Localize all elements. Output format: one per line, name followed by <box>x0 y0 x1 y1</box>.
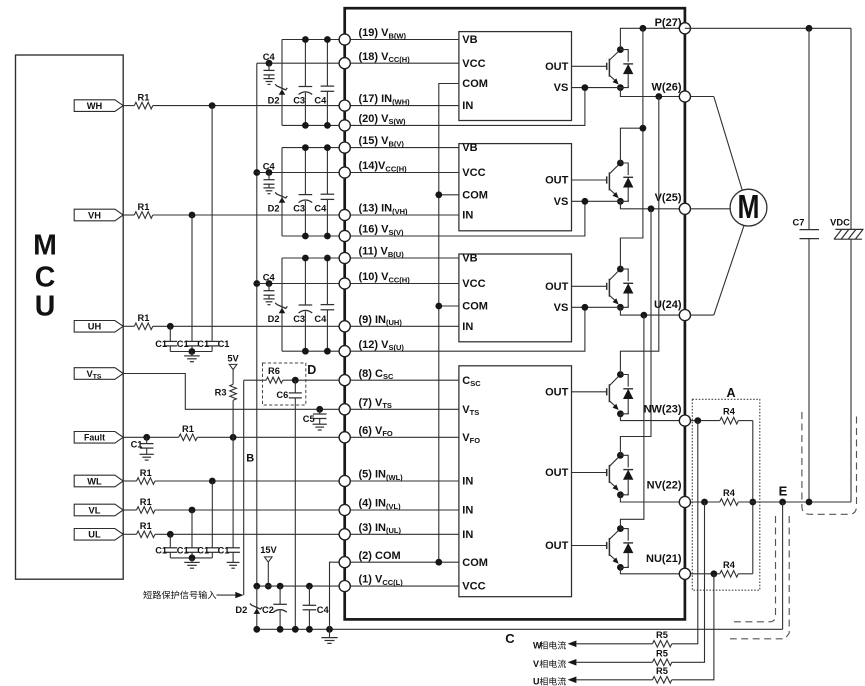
node WL junction <box>209 478 216 485</box>
svg-text:C1: C1 <box>177 339 189 349</box>
resistor R5 (V) <box>653 649 672 666</box>
wire UH flag to R1 <box>123 325 134 327</box>
svg-text:5V: 5V <box>227 354 239 364</box>
node ground rail <box>292 626 299 633</box>
wire R5 V to arrow <box>568 659 653 666</box>
wire R6 to C6 node <box>283 379 345 381</box>
svg-text:C3: C3 <box>293 314 305 324</box>
pin (8) circle <box>339 375 350 386</box>
node bootstrap rail <box>324 255 331 355</box>
svg-text:COM: COM <box>462 301 488 313</box>
pin NV(22) circle <box>679 496 690 507</box>
power 15V symbol <box>265 557 273 562</box>
capacitor C3 (bootstrap U) <box>299 258 313 351</box>
svg-text:VB: VB <box>462 142 477 154</box>
op-amp U4 low-side driver <box>459 366 572 597</box>
svg-text:C5: C5 <box>303 414 315 424</box>
wire W row <box>620 88 685 97</box>
wire CSC row to R6 network <box>244 379 267 381</box>
transistor Q6 IGBT NU-low with diode <box>572 525 634 571</box>
wire VCC(L) row <box>257 585 345 587</box>
pin (3) circle <box>339 529 350 540</box>
svg-text:OUT: OUT <box>545 175 569 187</box>
wire WL flag to R1 <box>123 480 136 482</box>
wire 5V to R3 <box>232 370 234 385</box>
wire NW sense down <box>672 421 698 644</box>
svg-text:C1: C1 <box>155 546 167 556</box>
pin NV(22) label <box>647 480 682 492</box>
capacitor C3 (bootstrap V) <box>299 148 313 236</box>
wire Q2 collector to P bus <box>620 128 643 163</box>
wire WH flag to R1 <box>123 105 134 107</box>
motor M <box>730 189 767 226</box>
pin (9) circle <box>339 321 350 332</box>
svg-text:R1: R1 <box>140 497 152 507</box>
node P bus junction <box>640 25 647 32</box>
svg-text:VL: VL <box>89 505 101 515</box>
box D dashed <box>263 363 306 405</box>
capacitor C4 (VCC W decoupling) <box>263 63 274 84</box>
node VCC rail to VCC(L) <box>253 583 260 590</box>
capacitor C4 (15V decoupling) <box>303 586 317 629</box>
pin (6) circle <box>339 432 350 443</box>
pin NW(23) circle <box>679 415 690 426</box>
pin (11) circle <box>339 252 350 263</box>
MCU port flag WH <box>74 100 123 112</box>
MCU port flag WL <box>74 475 123 487</box>
svg-text:R4: R4 <box>723 560 736 570</box>
node lower C1 rail <box>189 555 196 562</box>
dashed shield E inner <box>730 516 776 622</box>
node bootstrap rail <box>302 144 309 239</box>
wire NV row <box>620 495 685 502</box>
pin (17) circle <box>339 100 350 111</box>
wire WL R1 to pin (5) <box>155 480 345 482</box>
node bootstrap rail <box>302 36 309 129</box>
node C7 bottom junction <box>806 499 813 506</box>
label C4 (VCC U) <box>263 273 276 283</box>
svg-text:WL: WL <box>87 476 102 486</box>
svg-text:C4: C4 <box>263 162 276 172</box>
resistor R4 (U) <box>720 560 739 577</box>
pin NU(21) label <box>646 553 682 565</box>
svg-text:R1: R1 <box>138 202 150 212</box>
wire upper C1 common rail <box>170 351 212 353</box>
svg-text:VCC: VCC <box>462 278 485 290</box>
svg-text:UH: UH <box>88 322 102 332</box>
label C4 (VCC V) <box>263 162 276 172</box>
svg-text:VDC: VDC <box>830 218 850 228</box>
wire VH flag to R1 <box>123 214 134 216</box>
wire pin (11) to driver <box>345 257 459 259</box>
resistor R1 (UL) <box>137 521 156 538</box>
label D2 (V) <box>268 203 280 213</box>
pin P(27) circle <box>679 23 690 34</box>
wire 15V to VCC(L) <box>267 562 269 586</box>
wire UH to C1 cap <box>169 326 171 341</box>
transistor Q4 IGBT NW-low with diode <box>572 371 634 417</box>
wire WH to C1 cap <box>211 106 213 342</box>
svg-text:R1: R1 <box>182 424 194 434</box>
MCU U-MCU box <box>16 55 124 579</box>
wire NW row <box>620 414 685 421</box>
svg-text:R1: R1 <box>140 521 152 531</box>
capacitor C5 <box>313 409 327 430</box>
pin V(25) label <box>655 192 682 204</box>
pin (5) label <box>359 469 404 482</box>
svg-text:D2: D2 <box>268 95 280 105</box>
wire NV sense down <box>672 502 705 662</box>
wire V to motor <box>691 208 732 210</box>
pin (20) label <box>359 113 407 126</box>
pin U(24) label <box>654 299 682 311</box>
capacitor C2 <box>273 586 287 629</box>
wire VDC to E row <box>850 239 852 502</box>
capacitor C4 (bootstrap U) <box>321 258 335 351</box>
wire V bus to Q5 <box>620 209 651 455</box>
MCU label <box>33 229 57 322</box>
node COM bus U2 <box>435 191 442 198</box>
svg-text:C: C <box>505 631 515 646</box>
transistor Q1 IGBT W-high with diode <box>572 46 634 91</box>
capacitor C4 (VCC V decoupling) <box>263 173 274 194</box>
wire UL to C1 cap <box>169 534 171 548</box>
label C5 <box>303 414 315 424</box>
node ground rail <box>277 626 284 633</box>
svg-text:NV(22): NV(22) <box>647 480 682 492</box>
pin (16) label <box>359 224 404 237</box>
ground lower C1 bank <box>184 558 200 568</box>
module IPM boundary <box>345 8 685 619</box>
svg-text:C4: C4 <box>314 314 327 324</box>
node WH junction <box>209 102 216 109</box>
wire pin (13) to driver <box>345 214 459 216</box>
svg-text:C3: C3 <box>293 95 305 105</box>
label 15V <box>260 545 277 555</box>
pin (10) circle <box>339 278 350 289</box>
labels C1 lower bank <box>155 546 229 556</box>
capacitor C1 (UH filter) <box>164 341 178 351</box>
svg-text:C3: C3 <box>293 203 305 213</box>
svg-text:VCC: VCC <box>462 58 485 70</box>
pin (13) label <box>359 203 409 216</box>
label U-phase current (Chinese) <box>533 677 566 686</box>
wire U row <box>620 307 685 315</box>
label C6 <box>276 390 288 400</box>
node ground rail <box>253 626 260 633</box>
MCU port flag UL <box>74 529 123 541</box>
svg-text:IN: IN <box>462 210 473 222</box>
svg-text:OUT: OUT <box>545 540 569 552</box>
svg-text:R4: R4 <box>723 407 736 417</box>
node C2 top <box>277 583 284 590</box>
wire pin (5) to driver <box>345 480 459 482</box>
svg-text:VH: VH <box>88 210 101 220</box>
diode D2 (bootstrap clamp U) <box>275 258 287 351</box>
pin NU(21) circle <box>679 568 690 579</box>
svg-text:IN: IN <box>462 100 473 112</box>
pin (1) circle <box>339 581 350 592</box>
wire ground rail C <box>257 628 783 630</box>
transistor Q3 IGBT U-high with diode <box>572 266 634 311</box>
wire VS rail W <box>282 124 345 126</box>
wire E row <box>738 501 851 503</box>
svg-text:C2: C2 <box>262 605 274 615</box>
wire COM bus <box>439 84 459 563</box>
svg-text:C4: C4 <box>263 52 276 62</box>
svg-text:WH: WH <box>87 101 103 111</box>
node ground rail <box>306 626 313 633</box>
svg-text:C1: C1 <box>218 546 230 556</box>
resistor R1 (UH) <box>134 313 153 330</box>
svg-text:VS: VS <box>554 82 569 94</box>
pin V(25) circle <box>679 203 690 214</box>
node R4 rail E <box>749 499 756 506</box>
capacitor C1 (WH filter) <box>205 341 219 351</box>
svg-text:C7: C7 <box>793 218 805 228</box>
svg-text:D2: D2 <box>268 203 280 213</box>
wire VCC(H) row V <box>257 172 345 174</box>
wire VB rail V <box>282 147 345 149</box>
node C6 junction <box>292 377 299 384</box>
wire pin (12) VS return <box>345 307 585 351</box>
wire pin (9) to driver <box>345 325 459 327</box>
wire lower C1 common rail <box>170 557 212 559</box>
resistor R4 (V) <box>720 488 739 505</box>
wire W to motor <box>691 97 745 197</box>
node V bus junction <box>648 205 655 212</box>
label A <box>726 386 735 400</box>
wire pin (16) VS return <box>345 201 585 236</box>
wire Fault node to C1 <box>232 437 234 548</box>
label V-phase current (Chinese) <box>533 659 566 669</box>
resistor R1 (VH) <box>134 202 153 219</box>
wire NU sense down <box>672 574 714 680</box>
node Fault C1 junction <box>143 434 150 441</box>
node COM bus U4 <box>435 559 442 566</box>
pin (14) circle <box>339 167 350 178</box>
diode D2 (bootstrap clamp V) <box>275 148 287 236</box>
wire R5 W to arrow <box>568 641 653 648</box>
pin (16) circle <box>339 230 350 241</box>
node UL junction <box>167 531 174 538</box>
svg-text:NW(23): NW(23) <box>644 404 682 416</box>
pin (3) label <box>359 522 402 535</box>
dashed shield VDC <box>802 412 857 514</box>
svg-text:R5: R5 <box>656 630 668 640</box>
ground main earth <box>321 629 337 643</box>
pin (4) circle <box>339 504 350 515</box>
label node B <box>246 452 254 464</box>
label C4 (W) <box>314 95 327 105</box>
label C2 <box>262 605 274 615</box>
wire pin (19) to driver <box>345 39 459 41</box>
wire R5 U to arrow <box>568 677 653 684</box>
svg-text:C1: C1 <box>177 546 189 556</box>
capacitor C6 <box>289 380 302 398</box>
wire Fault flag to R1 <box>123 436 179 438</box>
capacitor C1 (Fault filter) <box>140 437 154 460</box>
wire pin (1) to driver <box>345 585 459 587</box>
pin (14) label <box>359 160 408 173</box>
wire pin (18) to driver <box>345 62 459 64</box>
node Fault/R3 junction <box>230 434 237 441</box>
op-amp U1 high-side driver W <box>459 32 572 121</box>
resistor R1 (WH) <box>134 92 153 109</box>
svg-text:COM: COM <box>462 78 488 90</box>
svg-text:C4: C4 <box>317 605 330 615</box>
wire U bus to Q6 <box>620 315 644 528</box>
node VS emitter-left <box>582 84 589 91</box>
wire P bus <box>620 28 643 269</box>
pin (2) circle <box>339 557 350 568</box>
svg-text:C6: C6 <box>276 390 288 400</box>
pin (19) label <box>359 27 407 40</box>
node COM bus U3 <box>435 303 442 310</box>
wire pin (7) to driver <box>345 408 459 410</box>
resistor R1 (WL) <box>137 468 156 485</box>
wire VH R1 to pin (13) <box>153 214 345 216</box>
capacitor C1 (UL filter) <box>164 548 178 558</box>
label C3 (W) <box>293 95 305 105</box>
wire C6 to ground rail <box>294 398 296 629</box>
wire pin (3) to driver <box>345 533 459 535</box>
wire pin (4) to driver <box>345 509 459 511</box>
wire VS stub to emitter <box>572 306 621 308</box>
resistor R1 (VL) <box>137 497 156 514</box>
svg-text:UL: UL <box>88 530 101 540</box>
wire WL to C1 cap <box>211 481 213 548</box>
svg-text:OUT: OUT <box>545 467 569 479</box>
node C4 decoupling U <box>266 280 273 287</box>
box A dotted <box>692 399 760 590</box>
svg-text:M: M <box>738 189 760 225</box>
node VCC rail tap U <box>253 280 260 287</box>
label C4 (VCC W) <box>263 52 276 62</box>
wire R4 right rail <box>752 421 754 574</box>
svg-text:C1: C1 <box>218 339 230 349</box>
node VS emitter-left <box>582 304 589 311</box>
resistor R6 <box>266 366 283 383</box>
node E <box>779 499 786 506</box>
svg-text:VS: VS <box>554 302 569 314</box>
pin (2) label <box>359 550 401 562</box>
svg-text:C4: C4 <box>263 273 276 283</box>
MCU port flag VTS <box>74 368 123 381</box>
capacitor C3 (bootstrap W) <box>299 40 313 126</box>
pin NW(23) label <box>644 404 682 416</box>
pin (1) label <box>359 574 404 587</box>
transistor Q5 IGBT NV-low with diode <box>572 452 634 498</box>
wire pin (2) to driver <box>345 561 459 563</box>
node VL junction <box>189 507 196 514</box>
wire pin (20) VS return <box>345 88 585 126</box>
svg-text:IN: IN <box>462 529 473 541</box>
node NW sense <box>694 417 701 424</box>
svg-text:V: V <box>533 659 539 669</box>
capacitor C4 (bootstrap W) <box>321 40 335 126</box>
wire pin (6) to driver <box>345 436 459 438</box>
svg-text:R1: R1 <box>138 92 150 102</box>
wire U to motor <box>691 221 746 315</box>
svg-text:IN: IN <box>462 505 473 517</box>
svg-text:C1: C1 <box>197 339 209 349</box>
wire COM stub U2 <box>439 194 459 196</box>
svg-text:C4: C4 <box>314 203 327 213</box>
MCU port flag VH <box>74 209 123 221</box>
wire pin (15) to driver <box>345 147 459 149</box>
svg-text:IN: IN <box>462 321 473 333</box>
svg-text:P(27): P(27) <box>655 17 682 29</box>
capacitor C4 (VCC U decoupling) <box>263 284 274 305</box>
label 5V <box>227 354 239 364</box>
wire pin (17) to driver <box>345 105 459 107</box>
svg-text:COM: COM <box>462 189 488 201</box>
svg-text:V(25): V(25) <box>655 192 682 204</box>
svg-text:VCC: VCC <box>462 581 485 593</box>
transistor Q2 IGBT V-high with diode <box>572 160 634 205</box>
wire VB rail U <box>282 257 345 259</box>
battery VDC symbol <box>830 218 863 240</box>
svg-text:A: A <box>726 386 735 400</box>
capacitor C1 (Fault/R3 filter) <box>226 548 240 568</box>
node W bus junction <box>655 93 662 100</box>
label C1 (Fault) <box>131 439 143 449</box>
pin P(27) label <box>655 17 682 29</box>
resistor R1 (Fault) <box>179 424 198 441</box>
wire VS rail V <box>282 235 345 237</box>
resistor R5 (U) <box>653 666 672 683</box>
node C4 decoupling V <box>266 169 273 176</box>
svg-text:R6: R6 <box>268 366 280 376</box>
wire V row <box>620 201 685 209</box>
pin (18) label <box>359 51 411 64</box>
node 15V junction <box>265 583 272 590</box>
svg-text:(2) COM: (2) COM <box>359 550 401 562</box>
svg-text:VB: VB <box>462 34 477 46</box>
svg-text:VS: VS <box>554 196 569 208</box>
pin (4) label <box>359 498 402 511</box>
svg-text:E: E <box>779 484 788 499</box>
node bootstrap rail <box>302 255 309 355</box>
node C4 bottom top <box>306 583 313 590</box>
wire VCC(H) row W <box>257 62 345 64</box>
node UH junction <box>167 323 174 330</box>
node NV sense <box>701 499 708 506</box>
pin (10) label <box>359 271 411 284</box>
label D2 (U) <box>268 314 280 324</box>
wire P row <box>620 28 685 49</box>
pin (15) circle <box>339 142 350 153</box>
pin (7) label <box>359 397 392 410</box>
svg-text:R3: R3 <box>215 388 227 398</box>
wire pin (14) to driver <box>345 172 459 174</box>
op-amp U2 high-side driver V <box>459 142 572 231</box>
wire UL flag to R1 <box>123 533 136 535</box>
node bootstrap rail <box>324 144 331 239</box>
pin (13) circle <box>339 209 350 220</box>
wire UL R1 to pin (3) <box>155 533 345 535</box>
wire COM stub U3 <box>439 305 459 307</box>
svg-text:D2: D2 <box>235 605 247 615</box>
capacitor C7 <box>800 28 820 502</box>
svg-text:R4: R4 <box>723 488 736 498</box>
wire UH R1 to pin (9) <box>153 325 345 327</box>
wire VTS flag jog <box>123 374 345 410</box>
diode D2 (bootstrap clamp W) <box>275 40 287 126</box>
MCU port flag VL <box>74 504 123 516</box>
labels C1 upper bank <box>155 339 229 349</box>
